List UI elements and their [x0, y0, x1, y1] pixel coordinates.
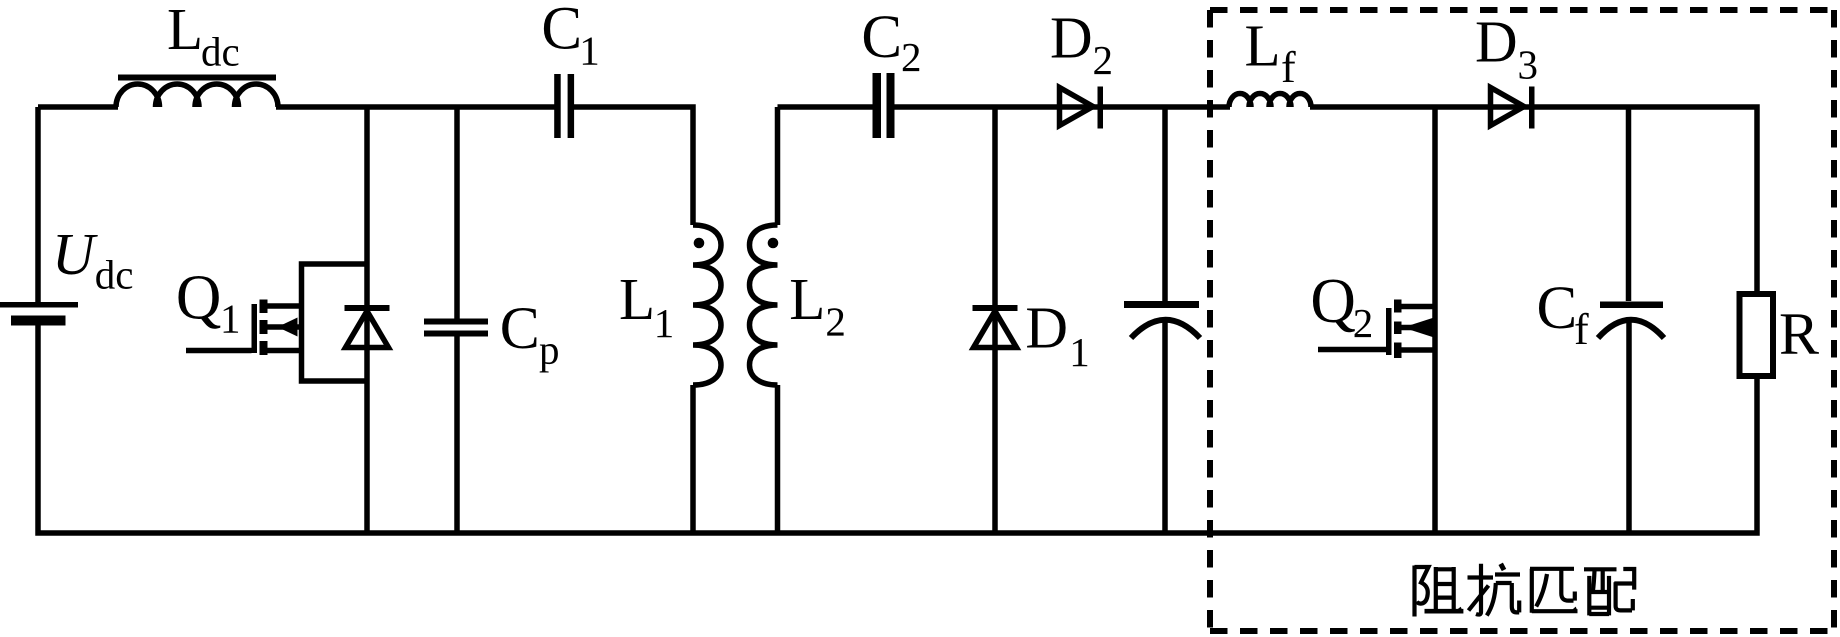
svg-text:Q: Q — [176, 263, 222, 333]
svg-text:3: 3 — [1518, 42, 1539, 88]
svg-text:D: D — [1475, 8, 1518, 74]
svg-text:1: 1 — [220, 296, 241, 342]
svg-text:dc: dc — [95, 252, 134, 298]
svg-text:dc: dc — [201, 29, 240, 75]
svg-text:2: 2 — [1353, 300, 1374, 346]
svg-text:L: L — [167, 0, 203, 62]
svg-text:2: 2 — [901, 34, 922, 80]
svg-text:C: C — [861, 4, 902, 71]
svg-text:C: C — [500, 295, 540, 361]
svg-text:2: 2 — [1093, 37, 1114, 83]
svg-text:R: R — [1779, 301, 1819, 367]
svg-text:p: p — [539, 327, 560, 373]
svg-text:1: 1 — [1069, 329, 1090, 375]
svg-text:L: L — [1245, 13, 1281, 79]
svg-text:L: L — [619, 266, 655, 332]
svg-text:f: f — [1281, 43, 1296, 92]
svg-text:L: L — [789, 266, 825, 332]
svg-text:C: C — [1537, 275, 1578, 342]
svg-text:U: U — [52, 221, 98, 287]
svg-text:D: D — [1025, 294, 1068, 360]
svg-text:D: D — [1050, 5, 1093, 71]
svg-text:1: 1 — [579, 28, 600, 74]
svg-text:2: 2 — [825, 298, 846, 344]
svg-text:Q: Q — [1310, 266, 1356, 336]
svg-text:1: 1 — [654, 300, 675, 346]
svg-text:f: f — [1574, 305, 1589, 354]
svg-text:C: C — [541, 0, 582, 63]
